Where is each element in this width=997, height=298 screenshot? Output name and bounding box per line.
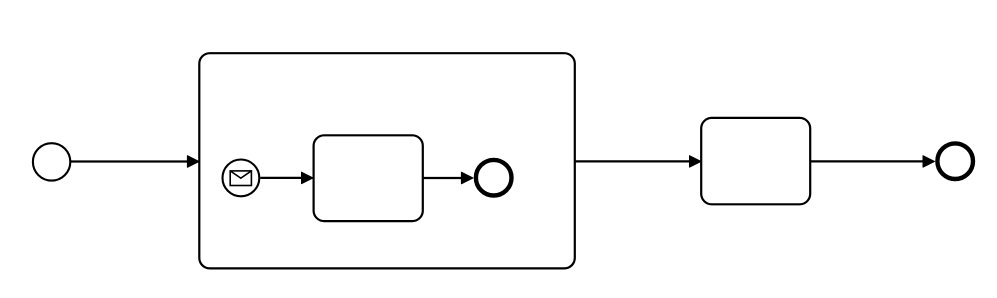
wire: sequence flow outer task to end event: [810, 156, 934, 168]
end event (inside subprocess): [476, 160, 512, 196]
envelope icon of message start event: [230, 171, 251, 186]
end event (outer process): [937, 143, 973, 179]
wire: sequence flow inner task to inner end event: [423, 172, 473, 184]
wire: sequence flow message event to inner task: [260, 172, 313, 184]
message start event (inside subprocess): [223, 160, 260, 197]
subprocess (expanded): [199, 53, 575, 268]
wire: sequence flow subprocess to outer task: [575, 156, 701, 168]
inner task: [314, 135, 423, 221]
start event (outer process): [33, 143, 70, 180]
outer task: [701, 118, 810, 204]
wire: sequence flow start event to subprocess: [71, 156, 199, 168]
